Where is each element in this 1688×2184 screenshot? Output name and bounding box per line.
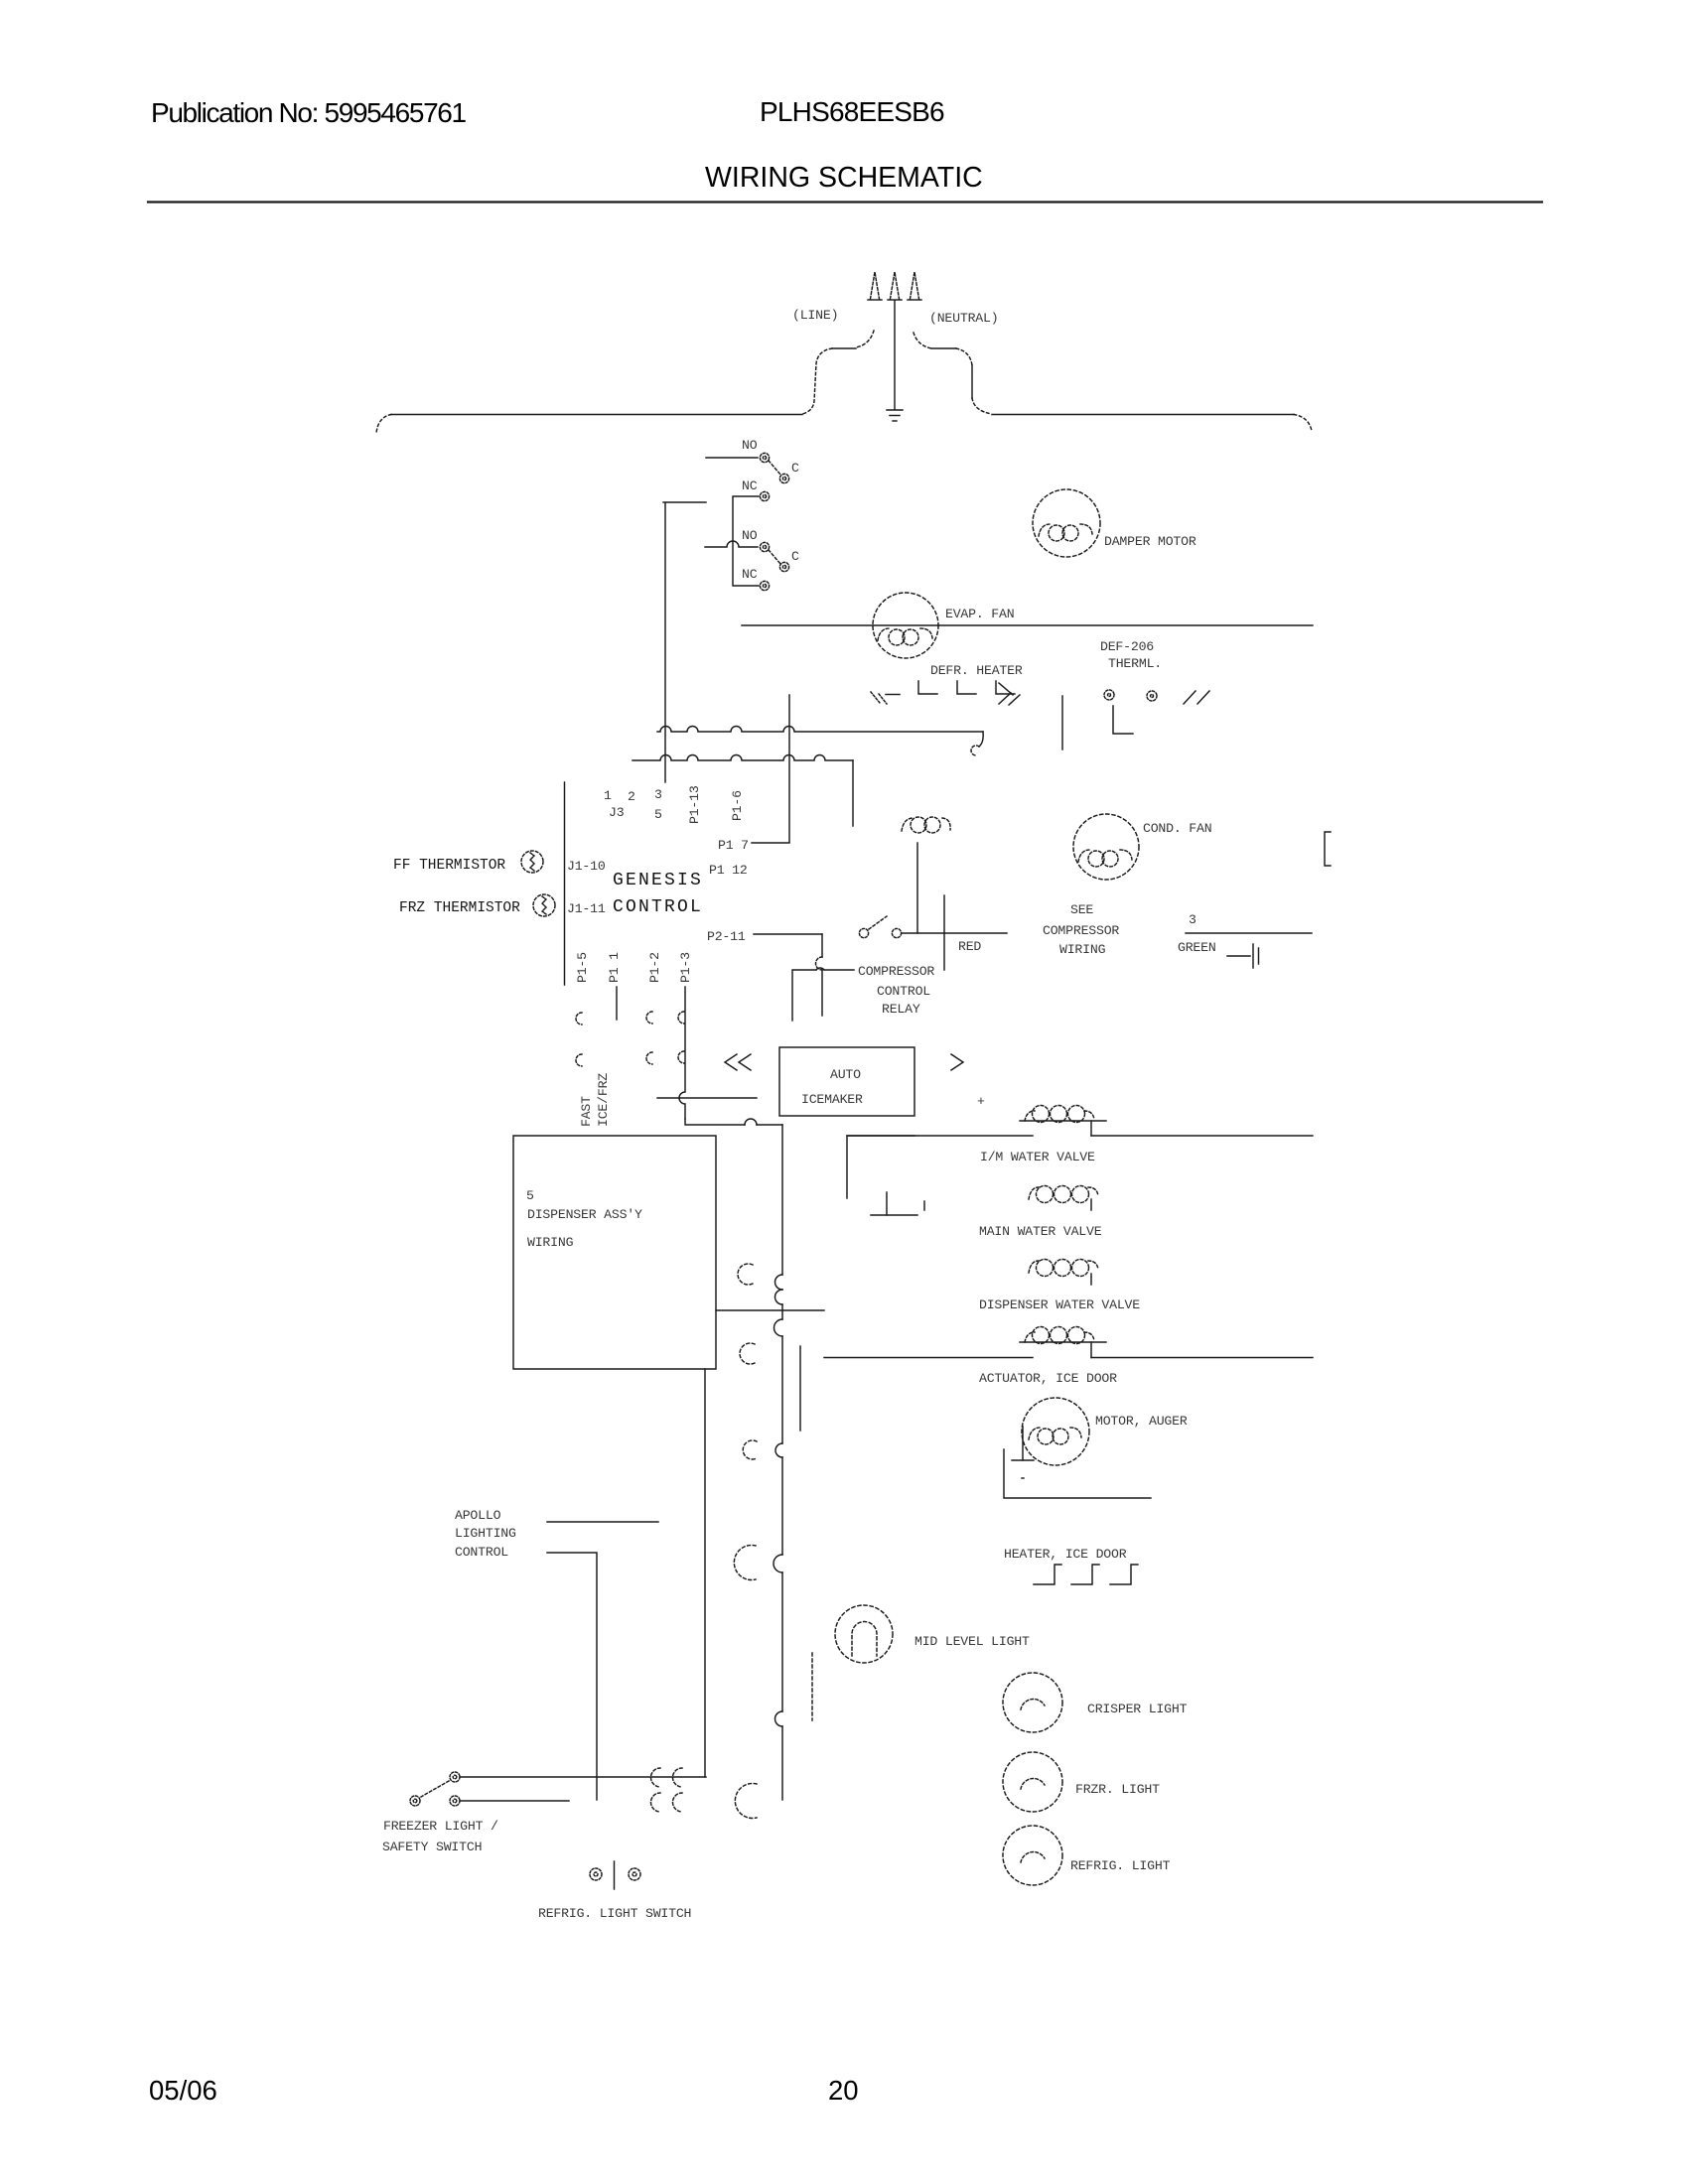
connector row wire P1 upper xyxy=(657,727,983,733)
right rail corner (dashed) xyxy=(1294,415,1312,432)
svg-text:CRISPER LIGHT: CRISPER LIGHT xyxy=(1087,1702,1188,1716)
svg-text:CONTROL: CONTROL xyxy=(455,1545,508,1560)
svg-text:DEFR. HEATER: DEFR. HEATER xyxy=(930,663,1023,678)
label DEFR. HEATER xyxy=(930,663,1023,678)
svg-text:CONTROL: CONTROL xyxy=(613,897,703,917)
wire from P1-3 to icemaker drop xyxy=(685,1119,782,1125)
svg-text:P1-13: P1-13 xyxy=(687,785,702,824)
defrost heater element xyxy=(871,681,1020,705)
connector row upper right hook xyxy=(979,732,983,747)
compressor control relay contact B xyxy=(892,928,901,937)
damper motor M1 circle xyxy=(1033,489,1100,557)
label FAST (rotated) xyxy=(579,1096,594,1127)
relay output wire xyxy=(902,932,1007,934)
main vertical wire to control xyxy=(664,503,666,782)
S2 switch arm xyxy=(769,550,780,564)
valves rail left segment xyxy=(847,1135,1033,1137)
cond fan winding xyxy=(1078,850,1132,867)
I/M water valve solenoid L1 xyxy=(1020,1120,1106,1122)
label ACTUATOR, ICE DOOR xyxy=(979,1371,1117,1386)
wire from lower row down xyxy=(852,760,854,826)
control board pin header line J1 xyxy=(564,782,566,985)
label I/M WATER VALVE xyxy=(980,1150,1095,1164)
svg-text:P1-5: P1-5 xyxy=(575,952,590,983)
label COMPRESSOR CONTROL RELAY xyxy=(858,964,934,1017)
right top rail xyxy=(992,414,1294,416)
label DISPENSER WATER VALVE xyxy=(979,1297,1140,1312)
svg-text:C: C xyxy=(791,549,799,564)
svg-text:3: 3 xyxy=(654,787,662,802)
label (NEUTRAL) xyxy=(929,311,998,326)
svg-text:NC: NC xyxy=(742,567,758,582)
header text xyxy=(149,96,983,2106)
label COND. FAN xyxy=(1143,821,1211,836)
label MAIN WATER VALVE xyxy=(979,1224,1102,1239)
svg-text:NO: NO xyxy=(742,438,758,453)
svg-text:DEF-206: DEF-206 xyxy=(1100,639,1154,654)
svg-text:SAFETY SWITCH: SAFETY SWITCH xyxy=(382,1840,482,1854)
wire P2-11 drop xyxy=(821,934,823,1016)
svg-text:1: 1 xyxy=(604,788,612,803)
label HEATER, ICE DOOR xyxy=(1004,1547,1127,1562)
actuator rail left segment xyxy=(824,1357,1033,1359)
freezer switch wire top xyxy=(460,1776,706,1778)
connector row wire P1 lower xyxy=(633,755,853,760)
label J1-10 xyxy=(567,859,606,874)
svg-text:REFRIG. LIGHT: REFRIG. LIGHT xyxy=(1070,1858,1171,1873)
dashed stub wire xyxy=(811,1653,813,1720)
FRZ thermistor RT2 xyxy=(533,894,555,916)
svg-text:+: + xyxy=(977,1094,985,1109)
label J1-11 xyxy=(567,901,606,916)
label J5 xyxy=(526,1188,534,1203)
svg-text:P1-3: P1-3 xyxy=(678,952,693,983)
svg-text:COMPRESSOR: COMPRESSOR xyxy=(858,964,934,979)
svg-text:MOTOR, AUGER: MOTOR, AUGER xyxy=(1095,1414,1188,1429)
S1 C contact xyxy=(779,474,788,482)
cond fan motor circle xyxy=(1073,814,1139,880)
FF thermistor RT1 xyxy=(521,851,543,873)
ground symbol xyxy=(887,409,903,411)
S2 NO contact xyxy=(760,542,769,551)
compressor control relay contact A xyxy=(859,928,868,937)
S1 NC contact xyxy=(760,491,769,500)
S2 NC contact xyxy=(760,581,769,590)
evap fan supply line xyxy=(742,624,1313,626)
auger motor M4 circle xyxy=(1022,1398,1089,1465)
svg-text:MAIN WATER VALVE: MAIN WATER VALVE xyxy=(979,1224,1102,1239)
svg-text:AUTO: AUTO xyxy=(830,1067,861,1082)
freezer light switch pivot xyxy=(410,1796,420,1806)
pin label J3 xyxy=(609,805,625,820)
wire NEUTRAL curve to right rail xyxy=(914,333,931,348)
stub wire near cond fan xyxy=(1061,696,1063,750)
dispenser wire across xyxy=(657,1097,757,1099)
wire overload to relay line xyxy=(916,843,918,933)
freezer light switch contact top xyxy=(450,1772,460,1782)
svg-text:REFRIG. LIGHT SWITCH: REFRIG. LIGHT SWITCH xyxy=(538,1906,691,1921)
evap fan motor circle xyxy=(873,593,938,658)
connector bracket xyxy=(1325,832,1331,866)
label FF THERMISTOR xyxy=(393,858,505,874)
main water valve solenoid L2 xyxy=(1029,1186,1098,1203)
wire from box bottom down xyxy=(704,1369,706,1777)
svg-text:C: C xyxy=(791,461,799,476)
label EVAP. FAN xyxy=(945,607,1014,621)
connector arcs under pins row2 xyxy=(576,1051,684,1066)
svg-text:NC: NC xyxy=(742,478,758,493)
pin label P1-5 (rotated) xyxy=(575,952,590,983)
apollo wire 2 xyxy=(547,1553,597,1800)
dispenser assembly box xyxy=(513,1136,716,1369)
damper motor winding xyxy=(1039,524,1092,541)
power plug prong LINE xyxy=(871,272,880,299)
label P2-11 with wire xyxy=(707,929,746,944)
label NC (S1) xyxy=(742,478,758,493)
label DAMPER MOTOR xyxy=(1104,534,1196,549)
label DISPENSER ASS'Y WIRING xyxy=(527,1207,642,1250)
svg-text:EVAP. FAN: EVAP. FAN xyxy=(945,607,1014,621)
label REFRIG. LIGHT xyxy=(1070,1858,1171,1873)
stub wire right of drop xyxy=(799,1346,801,1431)
label C (S1) xyxy=(791,461,799,476)
wire P1-7 riser xyxy=(788,695,790,842)
svg-text:5: 5 xyxy=(526,1188,534,1203)
freezer switch wire bottom xyxy=(460,1800,569,1802)
label NC (S2) xyxy=(742,567,758,582)
label MID LEVEL LIGHT xyxy=(914,1634,1030,1649)
svg-text:P2-11: P2-11 xyxy=(707,929,746,944)
relay coil feed wire xyxy=(792,970,854,1021)
label NO (switch S2) xyxy=(742,528,758,543)
svg-text:P1 12: P1 12 xyxy=(709,863,748,878)
svg-text:J1-10: J1-10 xyxy=(567,859,606,874)
svg-text:DAMPER MOTOR: DAMPER MOTOR xyxy=(1104,534,1196,549)
svg-text:Publication No: 5995465761: Publication No: 5995465761 xyxy=(151,97,467,128)
refrig light switch SW4 xyxy=(590,1868,640,1880)
pin label P1-2 (rotated) xyxy=(647,952,662,983)
label THERML. xyxy=(1108,656,1162,671)
freezer light LP3 xyxy=(1003,1752,1062,1812)
NC tie bracket wire xyxy=(733,496,759,586)
wire LINE curve to left rail xyxy=(856,331,874,347)
svg-text:PLHS68EESB6: PLHS68EESB6 xyxy=(760,96,944,127)
long drop wire with connectors xyxy=(781,1125,783,1800)
svg-text:J3: J3 xyxy=(609,805,625,820)
pin label P1-6 (rotated) xyxy=(730,790,745,821)
pin label P1-1 (rotated) xyxy=(607,952,622,983)
icemaker box corner line to valves rail xyxy=(847,1136,914,1198)
valves rail right segment xyxy=(1091,1135,1313,1137)
svg-text:FAST: FAST xyxy=(579,1096,594,1127)
label FRZR. LIGHT xyxy=(1075,1782,1160,1797)
S1 NO contact xyxy=(760,453,769,462)
svg-text:HEATER, ICE DOOR: HEATER, ICE DOOR xyxy=(1004,1547,1127,1562)
svg-text:20: 20 xyxy=(828,2075,859,2106)
refrig light LP4 xyxy=(1003,1826,1062,1885)
svg-text:ACTUATOR, ICE DOOR: ACTUATOR, ICE DOOR xyxy=(979,1371,1117,1386)
arrows left of icemaker xyxy=(725,1054,737,1070)
svg-text:GENESIS: GENESIS xyxy=(613,871,703,890)
left top rail xyxy=(391,414,802,416)
relay arm xyxy=(869,916,887,929)
svg-text:GREEN: GREEN xyxy=(1178,940,1216,955)
freezer light switch arm xyxy=(421,1781,449,1797)
label FRZ THERMISTOR xyxy=(399,900,520,916)
svg-text:2: 2 xyxy=(628,789,635,804)
label DEF-206 xyxy=(1100,639,1154,654)
freezer light switch contact bottom xyxy=(450,1796,460,1806)
defrost thermostat wire xyxy=(1113,706,1133,734)
mating connector arcs xyxy=(734,1264,757,1819)
label MOTOR, AUGER xyxy=(1095,1414,1188,1429)
apollo wire 1 xyxy=(547,1521,658,1523)
label RED xyxy=(958,939,981,954)
pin label P1-3 (rotated) xyxy=(678,952,693,983)
wire to S2 NO contact with hop xyxy=(705,541,758,547)
S2 C contact xyxy=(779,562,788,571)
ground wire from plug xyxy=(894,301,896,409)
defrost thermostat contacts xyxy=(1104,690,1157,701)
label NO (switch S1) xyxy=(742,438,758,453)
pin stub P1-1 xyxy=(616,987,618,1020)
svg-text:J1-11: J1-11 xyxy=(567,901,606,916)
dispenser water valve solenoid L3 xyxy=(1029,1260,1098,1277)
svg-text:LIGHTING: LIGHTING xyxy=(455,1526,516,1541)
pin label 5 xyxy=(654,807,662,822)
pin label 1 xyxy=(604,788,612,803)
svg-text:(NEUTRAL): (NEUTRAL) xyxy=(929,311,998,326)
svg-text:3: 3 xyxy=(1189,912,1196,927)
green ground wire xyxy=(1186,932,1312,934)
svg-text:P1 7: P1 7 xyxy=(718,838,749,853)
svg-text:FRZR. LIGHT: FRZR. LIGHT xyxy=(1075,1782,1160,1797)
pin label 3 xyxy=(654,787,662,802)
auger motor winding xyxy=(1029,1428,1081,1444)
svg-text:DISPENSER ASS'Y: DISPENSER ASS'Y xyxy=(527,1207,642,1222)
power plug prong GROUND xyxy=(891,272,900,299)
crisper light LP2 xyxy=(1003,1673,1062,1732)
ice door heater element xyxy=(1034,1565,1138,1584)
title underline xyxy=(148,201,1542,203)
svg-text:ICE/FRZ: ICE/FRZ xyxy=(596,1073,611,1127)
dispenser box output wire xyxy=(716,1309,824,1311)
auger motor ground stem xyxy=(1022,1427,1024,1460)
pin label 2 xyxy=(628,789,635,804)
auger motor feed wire xyxy=(1004,1449,1151,1498)
svg-text:CONTROL: CONTROL xyxy=(877,984,930,999)
crossing wire at relay xyxy=(943,895,945,970)
chassis ground symbol xyxy=(1227,955,1250,957)
left rail corner (dashed) xyxy=(376,415,391,434)
label (LINE) xyxy=(792,308,838,323)
label P1-7 with wire xyxy=(718,838,749,853)
svg-text:RED: RED xyxy=(958,939,981,954)
mid level light LP1 xyxy=(835,1605,893,1663)
plus tick xyxy=(977,1094,985,1109)
label 3 (green wire) xyxy=(1189,912,1196,927)
svg-text:05/06: 05/06 xyxy=(149,2075,217,2106)
wire into switch bank xyxy=(663,501,706,503)
inline connectors on switch wires xyxy=(651,1768,683,1812)
svg-text:APOLLO: APOLLO xyxy=(455,1508,501,1523)
svg-text:COMPRESSOR: COMPRESSOR xyxy=(1043,923,1119,938)
label ICE/FRZ (rotated) xyxy=(596,1073,611,1127)
stray dot xyxy=(1022,1477,1024,1479)
connector arrows right of thermostat xyxy=(1184,691,1196,704)
label AUTO ICEMAKER xyxy=(801,1067,863,1107)
connector arcs under pins row1 xyxy=(576,1012,684,1024)
svg-text:DISPENSER WATER VALVE: DISPENSER WATER VALVE xyxy=(979,1297,1140,1312)
label APOLLO LIGHTING CONTROL xyxy=(455,1508,516,1560)
svg-text:P1 1: P1 1 xyxy=(607,952,622,983)
svg-text:P1-6: P1-6 xyxy=(730,790,745,821)
svg-text:NO: NO xyxy=(742,528,758,543)
svg-text:P1-2: P1-2 xyxy=(647,952,662,983)
arrow right of icemaker xyxy=(951,1054,963,1070)
label GREEN xyxy=(1178,940,1216,955)
svg-text:THERML.: THERML. xyxy=(1108,656,1162,671)
svg-text:WIRING SCHEMATIC: WIRING SCHEMATIC xyxy=(705,162,983,194)
svg-text:COND. FAN: COND. FAN xyxy=(1143,821,1211,836)
svg-text:ICEMAKER: ICEMAKER xyxy=(801,1092,863,1107)
svg-text:FREEZER LIGHT /: FREEZER LIGHT / xyxy=(383,1819,498,1834)
compressor overload winding xyxy=(902,817,950,833)
svg-text:WIRING: WIRING xyxy=(527,1235,574,1250)
actuator rail right segment xyxy=(1091,1357,1313,1359)
svg-text:FF THERMISTOR: FF THERMISTOR xyxy=(393,858,505,874)
svg-text:(LINE): (LINE) xyxy=(792,308,838,323)
AUTO ICEMAKER box xyxy=(779,1047,914,1116)
label C (S2) xyxy=(791,549,799,564)
label P1-12 xyxy=(709,863,748,878)
svg-text:FRZ THERMISTOR: FRZ THERMISTOR xyxy=(399,900,520,916)
svg-text:RELAY: RELAY xyxy=(882,1002,920,1017)
pin label P1-13 (rotated) xyxy=(687,785,702,824)
ice door actuator solenoid L4 xyxy=(1020,1341,1106,1343)
GENESIS CONTROL title xyxy=(613,871,703,917)
label SEE COMPRESSOR WIRING xyxy=(1043,902,1119,957)
svg-text:I/M WATER VALVE: I/M WATER VALVE xyxy=(980,1150,1095,1164)
pin wire P1-3 down xyxy=(679,987,685,1119)
svg-text:MID LEVEL LIGHT: MID LEVEL LIGHT xyxy=(914,1634,1030,1649)
label REFRIG. LIGHT SWITCH xyxy=(538,1906,691,1921)
label FREEZER LIGHT / SAFETY SWITCH xyxy=(382,1819,498,1854)
S1 switch arm xyxy=(769,461,780,475)
svg-text:SEE: SEE xyxy=(1070,902,1093,917)
wire to S1 NO contact xyxy=(706,457,758,459)
connector on P2-11 drop xyxy=(816,957,822,970)
svg-text:WIRING: WIRING xyxy=(1059,942,1106,957)
label CRISPER LIGHT xyxy=(1087,1702,1188,1716)
evap fan winding xyxy=(878,628,932,645)
connector humps on drop wire xyxy=(774,1275,782,1726)
icemaker ground symbol xyxy=(886,1192,888,1215)
svg-text:5: 5 xyxy=(654,807,662,822)
plug prong base ticks xyxy=(868,299,882,301)
power plug prong NEUTRAL xyxy=(911,272,919,299)
